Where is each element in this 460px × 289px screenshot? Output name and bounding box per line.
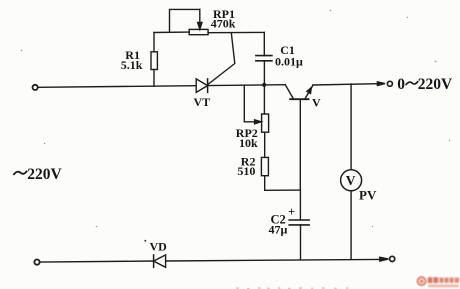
cropped caption specks along bottom edge	[236, 287, 348, 289]
svg-text:VT: VT	[194, 95, 211, 109]
svg-text:VD: VD	[150, 240, 168, 254]
diode VD	[154, 255, 166, 267]
svg-text:5.1k: 5.1k	[121, 58, 143, 72]
svg-text:10k: 10k	[239, 136, 258, 150]
terminal top-right (0~220V output, top)	[387, 81, 392, 86]
svg-text:220V: 220V	[418, 76, 453, 93]
svg-text:PV: PV	[359, 188, 377, 203]
svg-text:V: V	[312, 96, 321, 110]
svg-text:220V: 220V	[27, 166, 62, 183]
wire bottom rail left segment	[40, 261, 154, 262]
svg-text:0.01μ: 0.01μ	[275, 55, 303, 69]
terminal bottom-left (~220V input, bottom)	[34, 260, 39, 265]
node C1/rail junction	[262, 83, 266, 87]
wire base lead to C2	[299, 190, 301, 220]
thyristor VT	[196, 33, 235, 93]
svg-text:0: 0	[397, 76, 405, 93]
voltmeter PV	[341, 84, 362, 259]
scan speck near VD	[144, 240, 146, 242]
svg-text:+: +	[288, 205, 295, 219]
capacitor C2	[289, 220, 309, 260]
wire top rail right segment with arrow	[313, 82, 385, 86]
resistor R2	[261, 157, 300, 190]
potentiometer RP2	[244, 85, 268, 157]
wire top rail left segment	[38, 86, 196, 88]
svg-text:V: V	[346, 173, 356, 188]
label 0~220V	[397, 76, 453, 93]
terminal bottom-right (0~220V output, bottom)	[390, 256, 395, 261]
resistor R1	[151, 33, 157, 87]
label ~220V	[14, 166, 62, 183]
terminal top-left (~220V input, top)	[33, 85, 38, 90]
capacitor C1	[256, 32, 272, 85]
potentiometer RP1	[154, 9, 264, 34]
svg-text:47μ: 47μ	[269, 222, 288, 236]
svg-text:510: 510	[237, 164, 255, 178]
wire top rail middle segment	[208, 84, 286, 87]
transistor V	[285, 85, 313, 190]
svg-text:470k: 470k	[211, 17, 236, 31]
wire bottom rail right segment with arrow	[166, 257, 389, 261]
